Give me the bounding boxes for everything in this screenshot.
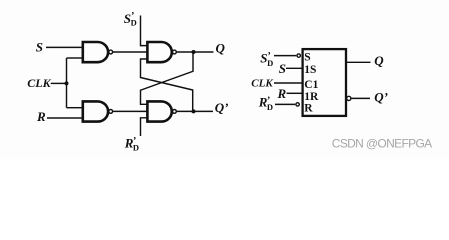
svg-text:R: R [304, 103, 313, 115]
svg-text:CLK: CLK [251, 78, 273, 90]
svg-text:1S: 1S [304, 64, 316, 76]
svg-text:C1: C1 [304, 79, 318, 91]
svg-text:R’D: R’D [258, 95, 273, 112]
svg-text:S’D: S’D [260, 50, 273, 67]
svg-text:Q’: Q’ [374, 90, 388, 105]
svg-text:R: R [277, 86, 287, 101]
svg-text:R’D: R’D [124, 136, 139, 153]
svg-text:CLK: CLK [27, 76, 51, 90]
svg-text:S: S [36, 40, 43, 55]
svg-text:S: S [279, 61, 286, 76]
svg-text:R: R [36, 109, 46, 124]
svg-text:Q: Q [374, 53, 384, 68]
svg-text:S: S [304, 52, 310, 64]
svg-text:1R: 1R [304, 91, 319, 103]
svg-text:CSDN @ONEFPGA: CSDN @ONEFPGA [332, 137, 432, 151]
svg-text:S’D: S’D [124, 11, 137, 28]
svg-text:Q’: Q’ [215, 100, 229, 115]
svg-text:Q: Q [216, 41, 226, 56]
